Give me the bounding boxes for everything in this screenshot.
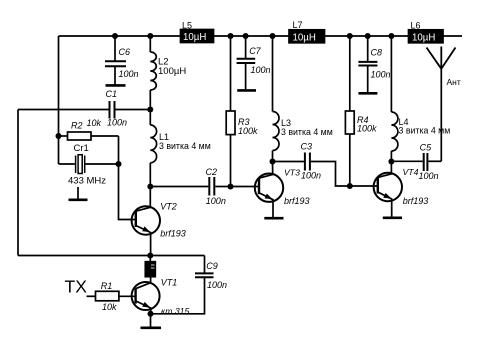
svg-text:3 витка 4 мм: 3 витка 4 мм [159, 141, 211, 151]
svg-text:10µH: 10µH [183, 32, 206, 43]
node VT1 emitter junction [148, 311, 154, 317]
svg-text:433 MHz: 433 MHz [68, 176, 106, 187]
svg-text:100µH: 100µH [158, 66, 186, 77]
wire to VT4 base [350, 185, 378, 187]
ground (under crystal) [69, 187, 88, 200]
svg-text:TX: TX [65, 277, 88, 297]
node L1/L2/C1 junction [147, 107, 153, 113]
node VT2 collector junction [147, 184, 153, 190]
svg-text:VT2: VT2 [160, 202, 177, 212]
svg-text:brf193: brf193 [160, 228, 186, 238]
svg-text:100k: 100k [357, 124, 377, 134]
capacitor C6 [105, 36, 126, 85]
svg-text:C6: C6 [119, 47, 131, 57]
node R3 bottom / VT3 base junction [228, 184, 234, 190]
capacitor C5 [391, 153, 441, 171]
svg-text:Ант: Ант [447, 77, 461, 87]
svg-text:L6: L6 [411, 21, 421, 31]
svg-text:C2: C2 [206, 167, 218, 177]
svg-text:L7: L7 [293, 20, 303, 30]
svg-text:100n: 100n [206, 196, 226, 206]
ground (VT4 emitter) [383, 217, 402, 220]
svg-text:100n: 100n [107, 118, 127, 128]
svg-text:100n: 100n [207, 280, 227, 290]
node VT2 emitter junction [147, 253, 153, 259]
wire to VT3 base [231, 186, 260, 188]
node VT4 collector junction [388, 159, 394, 165]
ground (C8) [358, 92, 377, 95]
svg-text:3 витка 4 мм: 3 витка 4 мм [399, 126, 451, 136]
node C6 on rail [112, 33, 118, 39]
transistor VT4 [374, 162, 402, 218]
wire top power rail [59, 35, 463, 37]
node L2 top on rail [147, 33, 153, 39]
svg-text:10k: 10k [87, 118, 102, 128]
capacitor C3 [273, 153, 350, 187]
inductor L6 (choke box) [409, 30, 444, 43]
node R4 bottom / VT4 base junction [347, 183, 353, 189]
svg-text:100n: 100n [301, 171, 321, 181]
svg-text:100n: 100n [251, 65, 271, 75]
node L3 top on rail [270, 33, 276, 39]
transistor VT1 [132, 282, 160, 314]
node Cr1 right junction [116, 161, 122, 167]
node R4 top on rail [347, 33, 353, 39]
antenna Ант [427, 47, 456, 162]
resistor R1 [87, 291, 136, 301]
inductor L1 [150, 110, 156, 187]
svg-text:L5: L5 [182, 21, 192, 31]
resistor R2 [59, 132, 119, 164]
svg-text:10µH: 10µH [293, 33, 316, 44]
crystal Cr1 [59, 155, 119, 174]
inductor L3 [273, 36, 280, 162]
wire VT2 base drop [119, 164, 136, 220]
svg-text:100k: 100k [238, 126, 258, 136]
node VT3 collector junction [270, 159, 276, 165]
ground (VT1 emitter) [141, 314, 162, 328]
wire C1 row [18, 109, 109, 111]
svg-text:brf193: brf193 [284, 196, 310, 206]
ground (VT3 emitter) [264, 217, 283, 220]
svg-text:10µH: 10µH [412, 33, 435, 44]
svg-text:C8: C8 [371, 48, 383, 58]
svg-text:C5: C5 [420, 143, 432, 153]
svg-text:brf193: brf193 [403, 196, 429, 206]
resistor R3 [226, 36, 235, 187]
inductor L4 [391, 36, 398, 162]
node C7 top on rail [243, 33, 249, 39]
ground (C6) [106, 84, 126, 87]
transistor VT2 [132, 187, 160, 256]
wire left feedback vertical [17, 110, 19, 256]
svg-text:100n: 100n [371, 70, 391, 80]
resistor R4 [345, 36, 354, 186]
svg-text:VT1: VT1 [161, 278, 178, 288]
capacitor C2 [150, 177, 230, 196]
svg-text:VT4: VT4 [403, 167, 419, 177]
svg-text:3 витка 4 мм: 3 витка 4 мм [281, 127, 333, 137]
node L4 top on rail [388, 33, 394, 39]
node R2 left junction [56, 133, 62, 139]
node R3 top on rail [228, 33, 234, 39]
capacitor C1 [110, 101, 151, 119]
svg-text:R2: R2 [71, 121, 83, 131]
svg-text:кт 315: кт 315 [161, 306, 190, 316]
inductor L2 [150, 36, 156, 110]
svg-text:C3: C3 [301, 142, 313, 152]
svg-text:C7: C7 [249, 46, 261, 56]
capacitor C7 [237, 36, 256, 90]
wire left drop from rail to R2/Cr1 [58, 36, 60, 164]
node C8 top on rail [365, 33, 371, 39]
svg-text:Cr1: Cr1 [74, 143, 89, 154]
svg-text:100n: 100n [419, 171, 439, 181]
inductor L7 (choke box) [289, 30, 325, 43]
ferrite bead (black box above VT1) [145, 256, 155, 284]
transistor VT3 [255, 162, 283, 218]
svg-text:VT3: VT3 [284, 168, 300, 178]
svg-text:C9: C9 [206, 261, 218, 271]
svg-text:C1: C1 [106, 89, 118, 99]
wire VT2 emitter row [18, 255, 205, 257]
svg-text:R1: R1 [101, 281, 113, 291]
svg-text:100n: 100n [119, 69, 139, 79]
ground (C7) [237, 89, 256, 92]
capacitor C8 [358, 36, 377, 93]
capacitor C9 [151, 256, 214, 314]
inductor L5 (choke box) [181, 30, 214, 43]
svg-text:10k: 10k [102, 302, 117, 312]
